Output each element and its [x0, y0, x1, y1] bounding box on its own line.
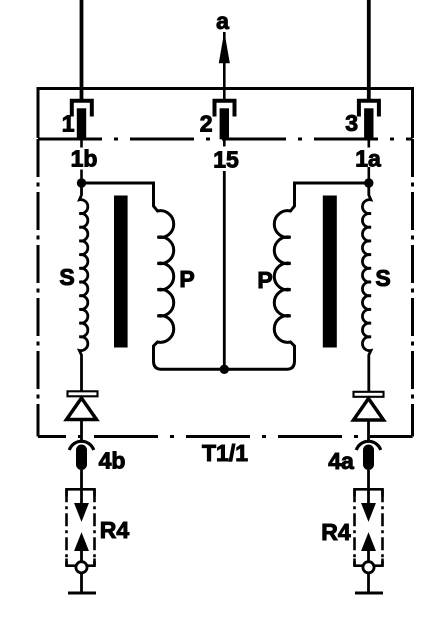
R4 right bottom terminal circle — [363, 562, 374, 573]
svg-text:T1/1: T1/1 — [202, 440, 248, 466]
wire 15 down to primary junction — [223, 171, 226, 370]
svg-text:R4: R4 — [100, 517, 130, 543]
wire a (terminal a lead) — [223, 32, 226, 100]
wire diode right to connector 4a — [367, 420, 370, 442]
connector pin 1 socket bracket — [72, 101, 92, 117]
svg-text:a: a — [216, 8, 229, 34]
T1/1 component boundary box (dash-dot) — [38, 139, 413, 437]
R4 right down electrode arrow — [362, 504, 375, 521]
connector 4a male capsule pin — [363, 445, 374, 471]
primary winding P left — [82, 183, 225, 369]
connector pin 1 male pin — [77, 108, 86, 139]
wire R4 left to ground bar — [80, 573, 83, 593]
connector 4b male capsule pin — [76, 445, 87, 471]
R4 right up electrode arrow — [362, 534, 375, 551]
wire diode left to connector 4b — [80, 420, 83, 442]
svg-text:R4: R4 — [321, 519, 351, 545]
connector housing box (solid) — [38, 89, 413, 139]
connector pin 3 socket bracket — [359, 101, 379, 117]
R4 right arrow stem — [367, 550, 370, 562]
R4 left down electrode arrow — [75, 504, 88, 521]
svg-text:2: 2 — [200, 111, 213, 137]
primary winding P right — [224, 183, 368, 369]
svg-text:P: P — [257, 267, 272, 293]
core bar left transformer — [114, 196, 128, 348]
svg-text:4b: 4b — [99, 448, 126, 474]
svg-text:P: P — [179, 266, 194, 292]
svg-text:S: S — [375, 265, 390, 291]
secondary winding S left — [79, 183, 87, 391]
pin 2 lower stub — [223, 139, 226, 147]
connector pin 3 male pin — [364, 108, 373, 139]
wire 4a to R4 — [367, 470, 370, 506]
junction node 1a — [364, 178, 373, 187]
R4 left spark plug box (dash-dot) — [67, 489, 95, 565]
wire 1b to junction — [80, 170, 83, 185]
pin 3 lower stub — [367, 139, 370, 148]
R4 left up electrode arrow — [75, 534, 88, 551]
svg-text:15: 15 — [213, 147, 239, 173]
svg-text:1: 1 — [62, 111, 75, 137]
diode left triangle — [67, 398, 97, 420]
R4 left arrow stem — [80, 550, 83, 562]
svg-text:3: 3 — [345, 110, 358, 136]
ground bar left — [68, 592, 96, 595]
svg-text:1b: 1b — [71, 146, 98, 172]
wire R4 right to ground bar — [367, 573, 370, 593]
wire 1a to junction — [367, 167, 370, 184]
wire top left (to pin 1) — [80, 0, 84, 101]
wire 4b to R4 — [80, 470, 83, 506]
svg-text:S: S — [59, 264, 74, 290]
connector pin 2 socket bracket — [215, 101, 235, 117]
R4 left bottom terminal circle — [76, 562, 87, 573]
connector pin 2 male pin — [220, 108, 229, 139]
R4 right spark plug box (dash-dot) — [355, 489, 383, 565]
secondary winding S right — [362, 183, 370, 391]
pin 1 lower stub — [80, 139, 83, 148]
diode left cathode bar — [68, 391, 98, 396]
ground bar right — [355, 592, 383, 595]
wire top right (to pin 3) — [367, 0, 371, 101]
svg-text:4a: 4a — [328, 448, 354, 474]
connector 4b socket arc — [69, 441, 93, 450]
arrow on wire a pointing up — [220, 36, 229, 63]
junction node primary center — [220, 365, 229, 374]
diode right triangle — [354, 399, 384, 421]
diode right cathode bar — [354, 392, 384, 397]
core bar right transformer — [323, 196, 337, 348]
connector 4a socket arc — [356, 441, 380, 450]
junction node 1b — [77, 178, 86, 187]
